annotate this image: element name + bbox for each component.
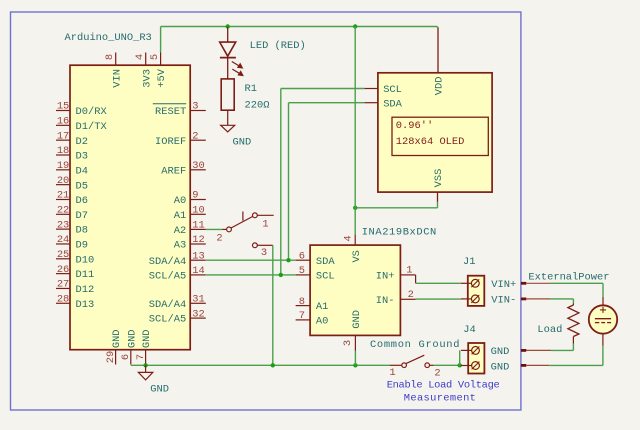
sheet border: [11, 12, 521, 410]
switch common contact: [227, 227, 232, 232]
svg-text:D7: D7: [76, 210, 88, 222]
Arduino pin 31 SDA/A4 stub: [190, 302, 206, 304]
svg-text:1: 1: [389, 367, 395, 379]
INA219 pin 5 SCL stub: [296, 274, 311, 276]
svg-text:3: 3: [192, 101, 198, 113]
INA219 pin 6 SDA stub: [296, 259, 311, 261]
svg-text:D3: D3: [76, 151, 88, 163]
OLED inner screen rectangle: [392, 117, 488, 155]
wire VIN- to load: [550, 298, 573, 300]
svg-text:SCL/A5: SCL/A5: [149, 271, 186, 283]
wire IN+ jog: [415, 275, 417, 283]
svg-text:IN-: IN-: [376, 295, 395, 307]
wire GND2 red segment: [526, 364, 549, 366]
INA219 pin 7 A0 stub: [296, 319, 311, 321]
svg-text:28: 28: [57, 293, 69, 305]
svg-text:A1: A1: [316, 301, 328, 313]
Arduino pin 27 D12 stub: [56, 287, 70, 289]
J1 terminal 2: [471, 295, 479, 303]
svg-text:IOREF: IOREF: [155, 136, 186, 148]
svg-text:18: 18: [57, 145, 69, 157]
wire VIN- red segment: [526, 298, 550, 300]
battery source circle: [589, 305, 617, 333]
wire VIN+ red segment: [526, 282, 550, 284]
Arduino pin 9 A0 stub: [190, 199, 206, 201]
svg-text:SCL: SCL: [316, 271, 335, 283]
svg-text:23: 23: [57, 219, 69, 231]
Arduino pin 17 D2 stub: [56, 139, 70, 141]
INA219 pin 8 A1 stub: [296, 305, 311, 307]
svg-text:2: 2: [192, 130, 198, 142]
wire +5V vertical from Arduino: [160, 27, 162, 53]
wire IN+ to J1: [416, 282, 461, 284]
wire load top drop: [572, 299, 574, 304]
svg-text:ExternalPower: ExternalPower: [528, 272, 609, 284]
J4 terminal 2: [472, 362, 480, 370]
svg-text:17: 17: [57, 130, 69, 142]
svg-text:1: 1: [262, 218, 268, 230]
Arduino pin 18 D3 stub: [56, 154, 70, 156]
wire SDA riser: [288, 103, 290, 261]
wire GND1 red segment: [526, 349, 551, 351]
svg-text:11: 11: [192, 220, 204, 232]
svg-text:5: 5: [299, 265, 305, 277]
load top pin: [572, 304, 574, 306]
svg-text:VIN-: VIN-: [491, 295, 516, 307]
svg-text:R1: R1: [245, 83, 257, 95]
wire VDD drop from top rail: [437, 27, 439, 29]
wire load bottom: [572, 344, 574, 351]
INA219 pin 2 IN- stub: [400, 298, 415, 300]
svg-text:D6: D6: [76, 195, 88, 207]
svg-text:220Ω: 220Ω: [245, 99, 270, 111]
svg-text:21: 21: [57, 190, 69, 202]
LED emission arrow 2: [232, 69, 243, 75]
Arduino top pin 4 3V3 stub: [145, 53, 147, 66]
Arduino bottom pin 6 GND stub: [130, 350, 132, 365]
svg-text:GND: GND: [111, 329, 123, 348]
svg-text:D13: D13: [76, 299, 95, 311]
svg-text:24: 24: [57, 234, 69, 246]
battery plus sign: [600, 307, 606, 313]
svg-text:INA219BxDCN: INA219BxDCN: [362, 227, 437, 239]
wire VSS horizontal: [355, 207, 437, 209]
svg-text:GND: GND: [233, 136, 252, 148]
svg-text:VIN: VIN: [111, 69, 123, 88]
svg-text:15: 15: [57, 101, 69, 113]
Arduino pin 10 A1 stub: [190, 213, 206, 215]
junction ground / INA GND: [353, 363, 357, 367]
J1 pin 1 stub: [461, 282, 472, 284]
Arduino bottom pin 29 GND stub: [115, 350, 117, 365]
OLED pin SCL stub: [364, 88, 378, 90]
battery dashed plate: [595, 322, 611, 324]
junction SDA: [286, 258, 290, 262]
Arduino pin 30 AREF stub: [190, 169, 206, 171]
INA219 pin 1 IN+ stub: [400, 274, 415, 276]
junction top rail / INA219 VS riser: [353, 24, 357, 28]
connector J1 body: [468, 276, 485, 306]
junction SCL: [279, 273, 283, 277]
ground symbol below R1: [221, 125, 235, 132]
svg-text:29: 29: [105, 351, 117, 363]
svg-text:6: 6: [120, 354, 132, 360]
svg-text:SDA: SDA: [383, 98, 402, 110]
svg-text:30: 30: [192, 160, 204, 172]
Arduino pin 11 A2 stub: [190, 228, 206, 230]
svg-text:D11: D11: [76, 269, 95, 281]
svg-text:SCL/A5: SCL/A5: [149, 314, 186, 326]
svg-text:D12: D12: [76, 284, 95, 296]
OLED pin VDD: [437, 27, 439, 73]
svg-text:D5: D5: [76, 180, 88, 192]
wire SDA to OLED: [289, 102, 365, 104]
wire VIN+ to source: [550, 282, 603, 284]
OLED pin SDA stub: [364, 102, 378, 104]
wire GND2 to source: [549, 364, 603, 366]
INA219 body: [310, 245, 400, 335]
svg-text:4: 4: [343, 235, 355, 241]
Arduino pin 32 SCL/A5 stub: [190, 317, 206, 319]
connector J4 body: [468, 343, 484, 374]
load bottom pin: [572, 337, 574, 344]
OLED display body: [378, 73, 492, 192]
svg-text:D2: D2: [76, 136, 88, 148]
switch common stub: [223, 228, 227, 230]
J1 pin 2 stub: [461, 298, 472, 300]
wire SDA horizontal: [206, 259, 296, 261]
wire J4 bridge vertical: [459, 350, 461, 365]
svg-text:13: 13: [192, 250, 204, 262]
Arduino pin 28 D13 stub: [56, 302, 70, 304]
wire source bottom: [602, 346, 604, 366]
svg-text:D4: D4: [76, 165, 88, 177]
J4 pin 1 stub: [461, 349, 472, 351]
svg-text:4: 4: [134, 54, 146, 60]
svg-text:Load: Load: [537, 324, 562, 336]
svg-text:D8: D8: [76, 225, 88, 237]
battery long plate: [595, 318, 611, 320]
svg-text:GND: GND: [491, 346, 510, 358]
resistor R1 body: [221, 79, 234, 110]
svg-text:2: 2: [434, 368, 440, 380]
svg-text:D1/TX: D1/TX: [76, 121, 108, 133]
switch enable stub left: [390, 364, 402, 366]
svg-text:3: 3: [261, 247, 267, 259]
svg-text:1: 1: [406, 264, 412, 276]
Arduino pin 24 D9 stub: [56, 243, 70, 245]
Arduino bottom pin 7 GND stub: [145, 350, 147, 365]
junction top rail / LED: [226, 24, 230, 28]
svg-text:Common Ground: Common Ground: [370, 339, 460, 351]
svg-text:9: 9: [192, 190, 198, 202]
svg-text:GND: GND: [150, 383, 169, 395]
Arduino pin 21 D6 stub: [56, 198, 70, 200]
svg-text:VSS: VSS: [433, 169, 445, 188]
svg-text:Measurement: Measurement: [404, 392, 476, 404]
Arduino pin 14 SCL/A5 stub: [190, 274, 206, 276]
switch enable stub right: [430, 364, 434, 366]
Arduino top pin 8 VIN stub: [115, 53, 117, 66]
border stub VIN-: [521, 297, 526, 300]
J4 terminal 1: [472, 347, 480, 355]
junction J4: [458, 363, 462, 367]
svg-text:A0: A0: [316, 316, 328, 328]
svg-text:12: 12: [192, 234, 204, 246]
svg-text:D0/RX: D0/RX: [76, 106, 108, 118]
J1 terminal 1: [471, 279, 479, 287]
svg-text:27: 27: [57, 279, 69, 291]
svg-text:19: 19: [57, 160, 69, 172]
svg-text:RESET: RESET: [155, 106, 186, 118]
wire +5V horizontal top rail: [161, 26, 438, 28]
wire LED cathode to R1: [227, 58, 229, 79]
wire VS riser: [354, 27, 356, 235]
source minus pin: [602, 334, 604, 346]
svg-text:5: 5: [149, 54, 161, 60]
border stub GND2: [521, 364, 526, 367]
Arduino pin 26 D11 stub: [56, 273, 70, 275]
svg-text:SDA/A4: SDA/A4: [149, 256, 186, 268]
ground symbol below Arduino: [138, 365, 152, 380]
Arduino pin 2 IOREF stub: [190, 139, 206, 141]
svg-text:Enable Load Voltage: Enable Load Voltage: [387, 380, 500, 392]
switch contact 3: [253, 243, 258, 248]
border stub GND1: [521, 349, 526, 352]
INA219 pin 3 GND stub: [354, 335, 356, 351]
OLED pin VSS stub: [437, 192, 439, 202]
svg-text:J4: J4: [463, 324, 475, 336]
svg-text:22: 22: [57, 205, 69, 217]
svg-text:26: 26: [57, 264, 69, 276]
svg-text:32: 32: [192, 308, 204, 320]
svg-text:2: 2: [216, 233, 222, 245]
svg-text:GND: GND: [491, 361, 510, 373]
wire R1 to ground: [227, 110, 229, 125]
svg-text:GND: GND: [351, 310, 363, 329]
wire source plus drop: [602, 283, 604, 297]
wire ground rail: [131, 364, 390, 366]
switch pin 1 stub: [257, 214, 273, 216]
svg-text:20: 20: [57, 175, 69, 187]
switch enable contact 2: [425, 363, 430, 368]
svg-text:SDA/A4: SDA/A4: [149, 299, 186, 311]
svg-text:Arduino_UNO_R3: Arduino_UNO_R3: [65, 32, 152, 44]
switch pin 3 stub: [257, 244, 272, 246]
svg-text:7: 7: [135, 354, 147, 360]
svg-text:A2: A2: [174, 225, 186, 237]
svg-text:3V3: 3V3: [141, 69, 153, 88]
svg-text:10: 10: [192, 205, 204, 217]
svg-text:+5V: +5V: [156, 68, 168, 87]
LED cathode bar: [220, 57, 236, 59]
svg-text:VDD: VDD: [434, 77, 446, 96]
switch contact 1: [253, 213, 258, 218]
junction ground / GND symbol: [143, 363, 147, 367]
J4 pin 2 stub: [461, 365, 472, 367]
svg-text:SCL: SCL: [383, 84, 402, 96]
wire VSS down from OLED: [437, 202, 439, 208]
LED anode pin: [227, 27, 229, 42]
wire INA GND down: [354, 351, 356, 365]
svg-text:IN+: IN+: [376, 271, 395, 283]
Arduino pin 12 A3 stub: [190, 243, 206, 245]
svg-text:AREF: AREF: [161, 165, 186, 177]
svg-text:D10: D10: [76, 254, 95, 266]
svg-text:VIN+: VIN+: [491, 279, 516, 291]
source plus pin: [602, 297, 604, 305]
svg-text:0.96'': 0.96'': [396, 120, 433, 132]
Arduino pin 20 D5 stub: [56, 184, 70, 186]
junction VSS / VS riser: [353, 206, 357, 210]
Arduino top pin 5 +5V stub: [160, 53, 162, 66]
svg-text:31: 31: [192, 294, 204, 306]
Arduino pin 16 D1/TX stub: [56, 124, 70, 126]
wire IN- to J1: [416, 298, 461, 300]
svg-text:14: 14: [192, 265, 204, 277]
INA219 pin 4 VS stub: [354, 235, 356, 245]
Arduino U? body: [70, 65, 190, 350]
RESET overline: [153, 103, 186, 105]
Arduino pin 25 D10 stub: [56, 258, 70, 260]
svg-text:7: 7: [299, 310, 305, 322]
wire SCL to OLED: [281, 88, 365, 90]
resistor Load zigzag: [568, 305, 579, 337]
svg-text:J1: J1: [463, 256, 475, 268]
svg-text:16: 16: [57, 116, 69, 128]
wire SCL riser: [280, 89, 282, 275]
svg-text:A1: A1: [174, 210, 186, 222]
wire switch to J4: [434, 364, 460, 366]
wire load to border GND: [551, 349, 573, 351]
svg-text:A3: A3: [174, 240, 186, 252]
svg-text:8: 8: [299, 296, 305, 308]
Arduino pin 13 SDA/A4 stub: [190, 259, 206, 261]
switch enable arm: [406, 355, 424, 363]
svg-text:25: 25: [57, 249, 69, 261]
Arduino pin 19 D4 stub: [56, 169, 70, 171]
svg-text:6: 6: [299, 250, 305, 262]
svg-text:8: 8: [104, 54, 116, 60]
svg-text:GND: GND: [126, 329, 138, 348]
svg-text:2: 2: [408, 289, 414, 301]
Arduino pin 15 D0/RX stub: [56, 110, 70, 112]
border stub VIN+: [521, 282, 526, 285]
svg-text:3: 3: [342, 340, 354, 346]
svg-text:LED (RED): LED (RED): [250, 40, 306, 52]
wire A2 to switch: [206, 228, 223, 230]
switch arm: [231, 216, 253, 228]
junction ground / switch3: [271, 363, 275, 367]
Arduino pin 22 D7 stub: [56, 213, 70, 215]
Arduino pin 3 RESET stub: [190, 110, 206, 112]
svg-text:VS: VS: [351, 250, 363, 262]
svg-text:GND: GND: [141, 329, 153, 348]
svg-text:128x64 OLED: 128x64 OLED: [396, 136, 465, 148]
switch off tick: [242, 212, 244, 221]
svg-text:SDA: SDA: [316, 256, 335, 268]
LED triangle: [220, 42, 236, 56]
svg-text:A0: A0: [174, 195, 186, 207]
wire SCL horizontal: [206, 274, 296, 276]
wire switch 3 to ground rail: [272, 245, 274, 365]
svg-text:D9: D9: [76, 240, 88, 252]
LED emission arrow 1: [232, 62, 243, 68]
switch enable contact 1: [402, 363, 407, 368]
Arduino pin 23 D8 stub: [56, 228, 70, 230]
